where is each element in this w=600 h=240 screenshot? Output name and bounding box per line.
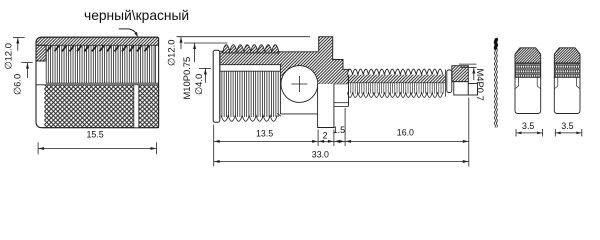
small nut at x=515.0: sectioned crown xyxy=(515,48,541,63)
small nut knurl band xyxy=(515,63,541,77)
M10 thread crests top xyxy=(223,45,279,53)
flange tab and steps xyxy=(319,37,349,107)
collar lower half xyxy=(454,82,469,95)
bottom plate xyxy=(318,84,334,128)
dim phi12.0 body xyxy=(177,36,311,38)
svg-text:16.0: 16.0 xyxy=(397,128,414,138)
svg-text:3.5: 3.5 xyxy=(561,121,573,131)
dim M4P0.7 xyxy=(459,63,477,65)
thin threaded rod xyxy=(494,38,495,127)
cap knurl gap band xyxy=(134,85,139,128)
body outline segments xyxy=(220,50,223,52)
body hatched mass xyxy=(220,37,349,84)
svg-text:1.5: 1.5 xyxy=(333,125,345,135)
cap left wall section block xyxy=(36,45,46,61)
small nut knurl band xyxy=(554,63,580,77)
svg-text:33.0: 33.0 xyxy=(312,150,329,160)
extension lines bottom xyxy=(213,125,215,167)
center block edges xyxy=(279,65,281,114)
svg-text:M10P0.75: M10P0.75 xyxy=(181,57,192,100)
dim line 13.5 2 1.5 16.0 xyxy=(214,140,469,142)
thread runout xyxy=(277,113,280,116)
dim 15.5 cap xyxy=(37,142,39,154)
dim phi12.0 cap xyxy=(13,37,25,39)
collar sectioned top xyxy=(452,66,469,82)
leader arrow to cap xyxy=(119,29,137,34)
cap end wall hatched band xyxy=(36,37,159,45)
svg-text:15.5: 15.5 xyxy=(87,130,104,140)
dim line 33.0 xyxy=(214,161,469,163)
small nut dim 3.5 xyxy=(554,129,556,137)
tip block xyxy=(468,84,477,96)
cap body outline xyxy=(36,37,159,128)
svg-text:∅12.0: ∅12.0 xyxy=(165,40,176,66)
dim phi6.0 cap xyxy=(21,62,32,64)
thin washer at stud end xyxy=(447,70,452,93)
small nut lower body xyxy=(515,77,541,113)
cap internal thread field xyxy=(48,46,154,83)
dim M10P0.75 xyxy=(184,42,228,44)
svg-text:M4P0.7: M4P0.7 xyxy=(475,69,486,101)
svg-text:13.5: 13.5 xyxy=(256,128,273,138)
svg-text:черный\красный: черный\красный xyxy=(84,8,189,23)
svg-text:∅12.0: ∅12.0 xyxy=(2,43,13,69)
svg-text:∅6.0: ∅6.0 xyxy=(12,74,23,95)
M10 thread field xyxy=(222,71,278,117)
svg-text:∅4.0: ∅4.0 xyxy=(193,74,204,95)
body left flange washer xyxy=(213,50,220,122)
cross hole circle xyxy=(281,66,318,103)
small nut at x=554.3: sectioned crown xyxy=(554,48,580,63)
small nut dim 3.5 xyxy=(515,129,517,137)
svg-text:3.5: 3.5 xyxy=(522,121,534,131)
small nut lower body xyxy=(554,77,580,113)
cap knurled sleeve xyxy=(36,85,159,128)
svg-text:2: 2 xyxy=(323,131,328,141)
dim phi4.0 xyxy=(199,67,211,69)
step under stud xyxy=(334,102,349,104)
M4 stud xyxy=(347,69,442,75)
